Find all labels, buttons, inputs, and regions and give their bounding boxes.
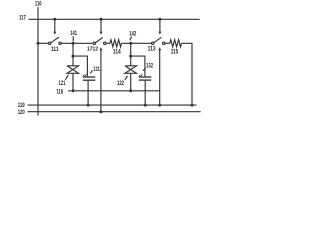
node 120 label	[18, 109, 25, 116]
junction on top rail above switch 112	[100, 18, 103, 21]
node 118 leader dash	[68, 90, 71, 92]
junction C131 on rail 119	[87, 104, 90, 107]
junction node 141	[72, 42, 75, 45]
control arrow up from below to switch 112	[99, 47, 102, 50]
switch S111 right contact	[59, 42, 61, 44]
capacitor C131 hatch marks	[83, 74, 87, 76]
node 118 label	[57, 88, 64, 95]
capacitor C132 hatch marks	[139, 74, 143, 76]
control arrow down to switch 113	[159, 19, 161, 32]
wire: jog to capacitor 132	[131, 56, 145, 76]
capacitor C132 top plate	[139, 76, 151, 78]
resistor R114	[110, 40, 122, 47]
junction on top rail above switch 113	[158, 18, 161, 21]
wire: row from resistor 114 to node 142	[122, 42, 152, 44]
svg-text:1712: 1712	[87, 47, 98, 53]
svg-text:141: 141	[70, 30, 77, 37]
component 121 label	[59, 80, 66, 87]
control arrow up from below to switch 113	[158, 47, 161, 50]
switch S111 left contact	[49, 42, 51, 44]
switch S112 right contact	[104, 42, 106, 44]
wire: varactor 121 to node 118 wire	[72, 73, 74, 91]
capacitor C132 bottom plate	[139, 79, 151, 81]
component 122 leader	[125, 76, 128, 80]
svg-text:111: 111	[51, 46, 59, 53]
svg-text:115: 115	[171, 48, 179, 55]
svg-text:113: 113	[148, 45, 156, 52]
wire: branch 1 vertical from node 141	[72, 43, 74, 66]
switch S113 label	[148, 45, 156, 52]
switch S112 blade	[96, 38, 103, 43]
capacitor C131 leader	[90, 70, 92, 73]
node 142 leader	[130, 36, 132, 40]
node 119 label	[18, 102, 25, 109]
junction on rail 119 right	[191, 104, 194, 107]
control arrow down to switch 112	[100, 19, 102, 32]
capacitor C132 label	[146, 63, 154, 70]
svg-text:114: 114	[113, 49, 121, 56]
junction on rail 119	[158, 104, 161, 107]
wire: node 118 bus	[73, 90, 160, 92]
wire: switch row segment to switch 111	[38, 42, 49, 44]
wire: row from switch 112 to resistor 114	[106, 42, 110, 44]
switch S112 left contact	[93, 42, 95, 44]
capacitor C131 label	[93, 66, 100, 73]
node 142 label	[129, 31, 137, 38]
wire: control line down to rail 120	[100, 50, 102, 112]
control arrow down to switch 111	[54, 19, 56, 32]
wire: right branch corner down to rail 119	[182, 43, 193, 105]
node 141 leader tick	[72, 36, 74, 41]
wire: control line down to rail 119	[159, 50, 161, 105]
junction node 118	[72, 89, 75, 92]
wire: capacitor 131 down to rail 119	[87, 81, 89, 105]
junction branch 2 split	[129, 55, 132, 58]
switch S112 label 1712	[87, 47, 98, 53]
wire: capacitor 132 down to rail 119	[144, 81, 146, 106]
wire: left vertical (node 116)	[37, 7, 39, 115]
wire: top rail (node 117)	[29, 18, 200, 20]
junction node 142	[129, 42, 132, 45]
svg-text:122: 122	[117, 80, 124, 87]
wire: varactor 122 to node 118 wire	[130, 73, 132, 91]
junction node at left vertical / switch row	[37, 42, 40, 45]
junction C132 on rail 119	[144, 104, 147, 107]
svg-text:121: 121	[59, 80, 66, 87]
node 116 label	[35, 1, 42, 8]
resistor R115 label	[171, 48, 179, 55]
junction on rail 120	[99, 110, 102, 113]
wire: branch 2 vertical from node 142	[130, 43, 132, 66]
svg-text:116: 116	[35, 1, 42, 8]
svg-text:117: 117	[19, 15, 26, 22]
switch S113 right contact	[163, 42, 165, 44]
svg-text:120: 120	[18, 109, 25, 116]
junction 122 on node 118 bus	[129, 89, 132, 92]
wire: rail 119	[28, 104, 197, 106]
junction branch 1 split	[72, 55, 75, 58]
svg-text:142: 142	[129, 31, 137, 38]
junction on top rail above switch 111	[53, 18, 56, 21]
capacitor C131 bottom plate	[83, 79, 95, 81]
node 117 label	[19, 15, 26, 22]
switch S113 left contact	[152, 42, 154, 44]
component 122 label	[117, 80, 124, 87]
svg-text:132: 132	[146, 63, 154, 70]
svg-text:131: 131	[93, 66, 100, 73]
switch S113 blade	[154, 37, 162, 42]
resistor R115	[170, 40, 182, 47]
switch S111 blade	[51, 37, 59, 43]
switch S111 label	[51, 46, 59, 53]
node 141 label	[70, 30, 77, 37]
svg-text:118: 118	[57, 88, 64, 95]
capacitor C131 top plate	[83, 76, 95, 78]
capacitor C132 leader	[143, 68, 145, 71]
component 121 leader	[65, 75, 68, 80]
wire: row from switch 113 to resistor 115	[165, 42, 170, 44]
resistor R114 label	[113, 49, 121, 56]
wire: rail 120	[28, 111, 201, 113]
varactor 122 (bowtie)	[125, 66, 137, 74]
varactor 121 (bowtie)	[67, 66, 79, 74]
wire: row from switch 111 to node 141	[61, 42, 93, 44]
wire: jog to capacitor 131	[73, 56, 87, 76]
